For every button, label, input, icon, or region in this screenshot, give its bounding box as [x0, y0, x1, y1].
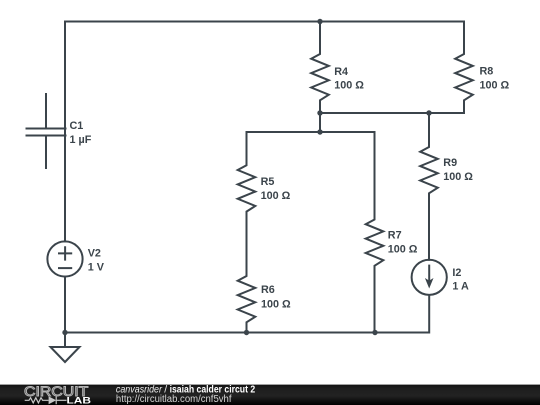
svg-text:R4: R4: [334, 66, 348, 78]
svg-text:R6: R6: [261, 284, 275, 296]
svg-text:R5: R5: [261, 176, 275, 188]
svg-text:R7: R7: [388, 230, 402, 242]
svg-text:100 Ω: 100 Ω: [388, 243, 418, 255]
svg-text:100 Ω: 100 Ω: [261, 298, 291, 310]
svg-text:http://circuitlab.com/cnf5vhf: http://circuitlab.com/cnf5vhf: [116, 394, 232, 405]
svg-text:R9: R9: [443, 157, 457, 169]
svg-text:V2: V2: [88, 247, 101, 259]
svg-text:C1: C1: [70, 120, 84, 132]
svg-text:I2: I2: [452, 267, 461, 279]
svg-text:100 Ω: 100 Ω: [334, 80, 364, 92]
svg-text:100 Ω: 100 Ω: [480, 79, 510, 91]
svg-text:R8: R8: [480, 65, 494, 77]
svg-text:LAB: LAB: [67, 395, 92, 405]
svg-text:1 µF: 1 µF: [70, 134, 92, 146]
svg-text:1 A: 1 A: [452, 281, 469, 293]
svg-text:100 Ω: 100 Ω: [443, 171, 473, 183]
svg-text:1 V: 1 V: [88, 261, 105, 273]
svg-text:100 Ω: 100 Ω: [261, 190, 291, 202]
